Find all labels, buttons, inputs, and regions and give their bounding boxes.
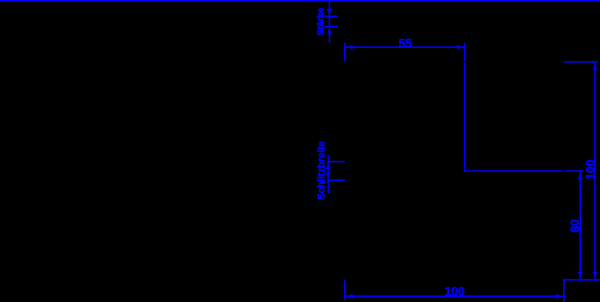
100 bottom arrow pointing right xyxy=(556,294,563,298)
Staerke extension stub lower xyxy=(325,26,338,28)
Staerke arrow pointing up xyxy=(327,27,331,34)
horizontal object edge at y=171 xyxy=(465,170,563,172)
vertical object edge at x=464.6 (upper part) xyxy=(464,43,466,61)
Schlitzbreite extension stub lower xyxy=(328,179,345,181)
55 dimension line xyxy=(346,46,465,48)
vertical object edge at x=464.6 (lower part) xyxy=(464,62,466,171)
100 right dim: top extension stub xyxy=(564,61,598,63)
svg-text:Schlitzbreite: Schlitzbreite xyxy=(316,141,327,200)
box left object edge xyxy=(563,279,565,302)
100 right arrow pointing down xyxy=(593,272,597,279)
80 dimension line xyxy=(579,172,581,279)
Staerke extension stub upper xyxy=(325,15,338,17)
top object edge line xyxy=(0,0,600,2)
80 arrow pointing up xyxy=(578,172,582,179)
box top object edge xyxy=(564,279,600,281)
svg-text:Stärke: Stärke xyxy=(315,8,325,36)
80 arrow pointing down xyxy=(578,272,582,279)
100 bottom dimension line xyxy=(346,295,564,297)
svg-text:55: 55 xyxy=(399,36,413,50)
Schlitzbreite extension stub upper xyxy=(328,161,345,163)
svg-text:80: 80 xyxy=(568,219,582,233)
svg-text:100: 100 xyxy=(584,159,598,179)
Schlitzbreite arrow pointing up xyxy=(326,162,330,169)
svg-text:100: 100 xyxy=(445,284,465,298)
55 dim: left extension line xyxy=(344,43,346,62)
100 right dimension line xyxy=(594,62,596,279)
100 bottom dim: left extension line xyxy=(344,280,346,300)
Staerke arrow pointing down xyxy=(327,9,331,16)
100 bottom arrow pointing left xyxy=(346,294,353,298)
55 arrow pointing right xyxy=(457,45,464,49)
Staerke dimension line (vertical) xyxy=(328,1,330,44)
Schlitzbreite dimension line (vertical) xyxy=(327,155,329,193)
80 dim: extension stub at y=171 xyxy=(565,170,584,172)
100 right arrow pointing up xyxy=(593,62,597,69)
55 arrow pointing left xyxy=(346,45,353,49)
Schlitzbreite arrow pointing down xyxy=(326,173,330,180)
